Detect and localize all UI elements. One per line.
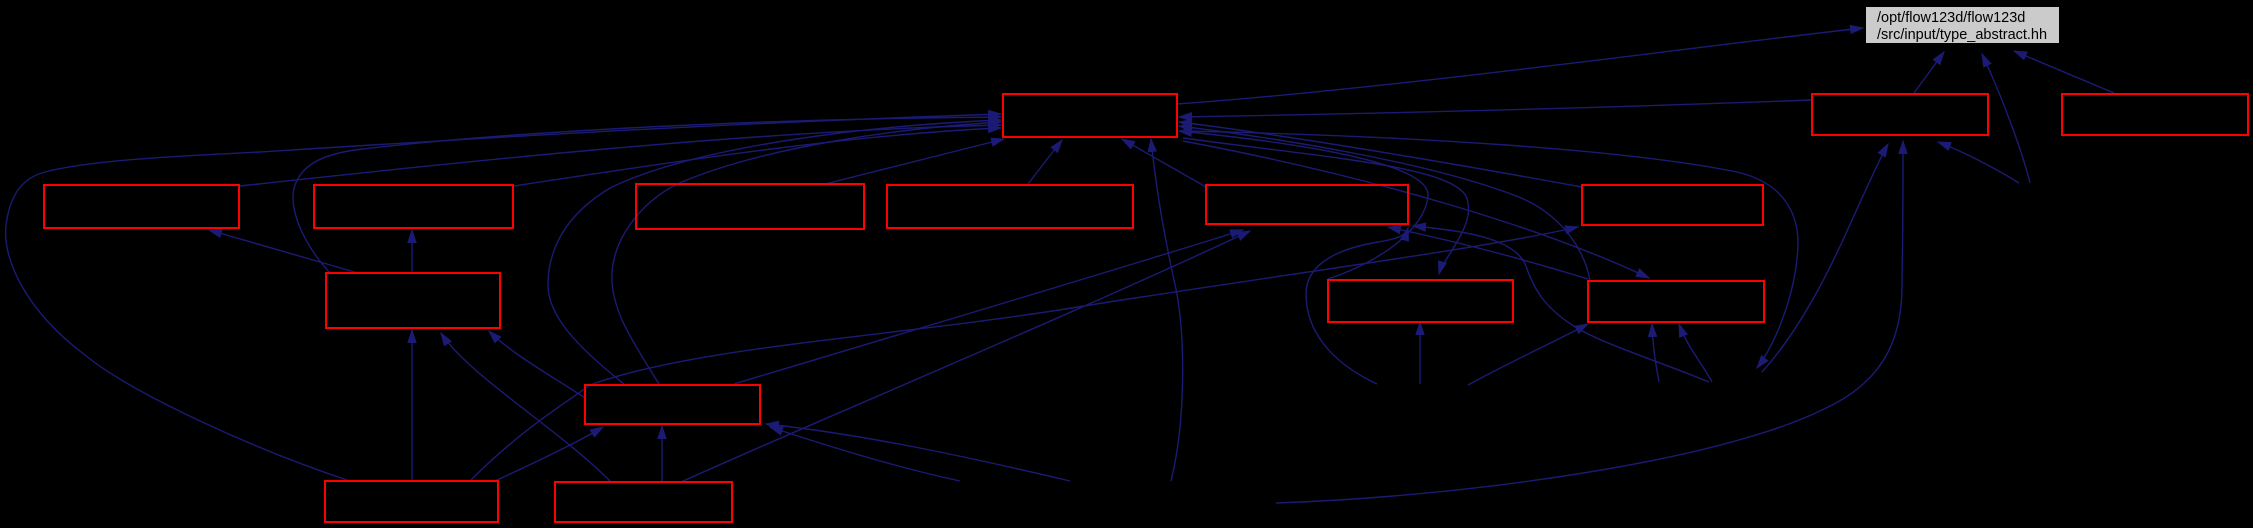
edge P3->M [1419, 322, 1421, 384]
edge P3->E [1306, 228, 1408, 384]
edge K->F [470, 227, 1578, 481]
edge P1->grey [1982, 54, 2030, 183]
edge K->hub [6, 114, 1001, 481]
edge hub->P2 [1182, 131, 1798, 368]
edge J->hub 1 [548, 120, 1001, 384]
edge H->grey [2014, 51, 2114, 93]
edge N->E [1388, 227, 1588, 279]
edge I->A [209, 230, 358, 273]
edge L->E [681, 231, 1250, 482]
edge E->hub [1122, 139, 1206, 187]
edge L->J [661, 426, 663, 481]
edge P2->G [1762, 144, 1888, 372]
node B [314, 185, 513, 228]
edge C->hub [825, 139, 1004, 184]
edge B->hub [514, 128, 1001, 186]
edge I->B [411, 230, 413, 273]
edge P2->N 1 [1652, 324, 1659, 382]
node grey /opt/flow123d/flow123d/src/input/type_abstract.hh [1866, 7, 2059, 43]
edge hub->grey [1177, 28, 1863, 104]
edge I->hub [293, 117, 1001, 273]
node K [325, 481, 498, 522]
svg-text:/opt/flow123d/flow123d: /opt/flow123d/flow123d [1877, 10, 2025, 26]
edge K->J [495, 427, 603, 481]
edge M->hub [1179, 131, 1428, 279]
node C [636, 184, 864, 229]
edge L->I [441, 333, 611, 482]
node G [1812, 94, 1988, 135]
node J [585, 385, 760, 424]
node D [887, 185, 1133, 228]
edge F->hub [1179, 122, 1582, 187]
edge P1->G [1938, 142, 2019, 183]
node F [1582, 185, 1763, 225]
edge J->hub 2 [612, 122, 1001, 384]
edge P6->G sweep [1276, 141, 1903, 503]
node M [1328, 280, 1513, 322]
node E [1206, 185, 1408, 224]
edge G->hub [1179, 100, 1812, 117]
edge G->grey [1914, 52, 1944, 93]
edge P6->J 2 [766, 424, 1070, 481]
node A [44, 185, 239, 228]
edge J->E [734, 230, 1243, 384]
edge P6->hub [1151, 139, 1183, 481]
svg-text:/src/input/type_abstract.hh: /src/input/type_abstract.hh [1877, 27, 2047, 43]
node L [555, 482, 732, 522]
node H [2062, 94, 2248, 135]
node I [326, 273, 500, 328]
edge P2->E [1413, 226, 1709, 382]
edge N->hub [1179, 126, 1590, 280]
edge A->hub [240, 125, 1001, 186]
edge P3->N [1468, 324, 1588, 385]
node hub [1003, 94, 1177, 137]
edge hub->N [1183, 141, 1649, 278]
edge P6->J 1 [770, 427, 960, 481]
edge hub->M [1183, 138, 1469, 274]
edge K->I [411, 330, 413, 481]
node N [1588, 281, 1764, 322]
edge J->I [489, 331, 585, 398]
edge P2->N 2 [1679, 324, 1712, 382]
edge D->hub [1028, 140, 1062, 184]
